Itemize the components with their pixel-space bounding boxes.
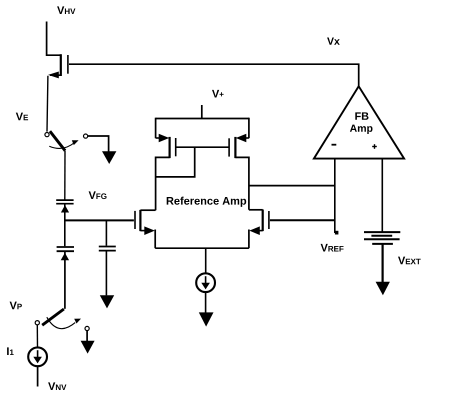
switch S1 motion arc arrow	[49, 140, 78, 148]
plus sign	[372, 144, 377, 149]
wire S1 blade down to C1	[64, 151, 66, 200]
wire shared mirror gate	[176, 146, 229, 148]
ground arrow at S2 throw	[81, 341, 95, 354]
wire MHV gate to FB amp apex (node Vx)	[69, 64, 359, 86]
battery VEXT	[364, 232, 400, 244]
transistor MHV gate bar	[67, 55, 69, 74]
minus sign	[332, 144, 337, 146]
ground arrow below C2	[100, 295, 114, 308]
wire ref amp top rail	[156, 118, 249, 120]
current source I1	[28, 347, 47, 366]
switch S2 motion arc arrow	[47, 317, 81, 328]
wire ref amp output to FB amp minus input	[249, 185, 335, 187]
wire C1 to node VFG	[64, 204, 66, 221]
ground arrow at S1 throw	[102, 151, 116, 164]
wire MHV source down to switch S1	[46, 76, 49, 132]
wire node VFG horizontal to M3 gate	[64, 219, 134, 221]
node V+ label	[212, 90, 224, 98]
switch S1 blade	[50, 131, 65, 151]
ground arrow below I2	[199, 312, 214, 326]
node VE label	[16, 113, 28, 121]
current source I2	[196, 273, 215, 292]
Reference Amp label	[167, 197, 247, 207]
op-amp U1 FB Amp triangle	[314, 86, 404, 158]
transistor MHV channel bar	[60, 54, 62, 76]
switch S2 blade	[42, 309, 64, 325]
wire ref amp tail rail	[155, 247, 249, 249]
capacitor C3	[57, 247, 74, 251]
wire M4 gate to VREF line	[270, 219, 335, 221]
node VHV label	[57, 6, 75, 14]
wire VHV to transistor	[47, 22, 61, 56]
capacitor C1	[56, 200, 73, 204]
wire battery to ground	[382, 244, 384, 282]
up arrow below C3	[61, 253, 69, 260]
wire node to C2	[105, 220, 107, 245]
wire S2 pole to current source I1	[36, 325, 38, 348]
FB Amp label	[355, 112, 368, 119]
wire I1 to VNV	[37, 366, 39, 386]
node VP label	[10, 302, 22, 310]
wire FB amp minus input down to VREF	[334, 159, 336, 233]
node Vx label	[327, 38, 340, 45]
node VNV label	[48, 382, 66, 390]
wire S2 throw to ground	[86, 331, 88, 341]
wire S1 throw to ground	[88, 136, 109, 152]
wire I2 to ground	[205, 292, 207, 312]
switch S1 throw terminal	[84, 134, 88, 138]
wire M1 diode connection	[156, 147, 195, 177]
transistor M3 (left input NMOS)	[135, 210, 156, 248]
node VEXT label	[398, 257, 421, 265]
wire tail to current source I2	[205, 248, 207, 273]
node VFG label	[89, 191, 107, 199]
switch S2 pole terminal	[35, 321, 39, 325]
wire C3 down to switch S2	[64, 251, 66, 309]
transistor M4 (right input NMOS)	[249, 210, 269, 249]
node VREF terminal dot	[335, 231, 339, 235]
node VREF label	[321, 244, 344, 252]
transistor M1 (left PMOS of mirror)	[156, 118, 176, 211]
ground arrow below battery	[376, 282, 390, 296]
up arrow below C1	[61, 205, 69, 212]
transistor MHV source arrow	[48, 72, 61, 79]
switch S2 throw terminal	[85, 326, 89, 330]
wire V+ stub	[201, 105, 203, 119]
wire C2 to ground	[105, 251, 107, 296]
I1 label	[7, 347, 14, 355]
transistor M2 (right PMOS of mirror)	[229, 118, 249, 210]
switch S1 pole terminal	[45, 133, 49, 137]
wire FB amp plus input down to battery	[381, 159, 383, 232]
wire node to C3	[64, 220, 66, 246]
capacitor C2	[99, 247, 116, 251]
